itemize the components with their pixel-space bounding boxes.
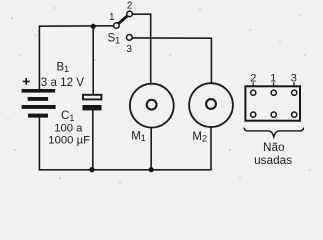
connector pin row 2 col 3 — [292, 112, 297, 117]
tick terminal 3 — [293, 82, 295, 86]
capacitor C1 top plate — [83, 95, 101, 100]
wire M1 bottom to bottom rail — [150, 127, 152, 170]
svg-text:S1: S1 — [108, 33, 121, 46]
svg-text:100 a: 100 a — [54, 122, 83, 134]
node junction dot bottom rail / M1 — [149, 167, 154, 172]
motor M2 — [189, 83, 233, 127]
switch S1 lever — [118, 15, 128, 24]
wire capacitor branch lower — [92, 110, 94, 170]
connector pin row 2 col 2 — [271, 112, 276, 117]
wire left vertical lower (battery - to bottom rail) — [38, 117, 40, 170]
svg-text:usadas: usadas — [254, 153, 292, 167]
wire top rail from left corner to switch pole — [39, 25, 113, 27]
wire switch contact 2 to M1 top — [132, 14, 151, 84]
tick terminal 1 — [273, 82, 275, 86]
svg-text:Não: Não — [263, 140, 285, 154]
switch S1 contact 2 — [127, 11, 133, 17]
svg-text:2: 2 — [127, 1, 133, 12]
connector body (unused terminal block) — [245, 86, 300, 120]
battery B1 plates — [22, 89, 56, 118]
connector pin row 1 col 1 — [251, 90, 256, 95]
wire switch contact 3 to M2 top — [132, 38, 211, 84]
wire bottom rail — [39, 169, 212, 171]
connector pin row 1 col 2 — [271, 90, 276, 95]
capacitor C1 bottom plate — [83, 105, 102, 110]
svg-text:M2: M2 — [192, 131, 207, 144]
node junction dot bottom rail / C1 — [89, 167, 94, 172]
battery + polarity mark — [23, 78, 30, 85]
connector pin row 2 col 1 — [251, 112, 256, 117]
wire left vertical upper (battery + to top rail) — [38, 25, 40, 89]
wire M2 bottom to bottom rail — [210, 127, 212, 170]
svg-text:B1: B1 — [57, 61, 70, 74]
svg-text:3 a 12 V: 3 a 12 V — [41, 76, 84, 89]
connector pin row 1 col 3 — [292, 90, 297, 95]
switch S1 contact 1 (pole) — [114, 23, 120, 29]
svg-text:1: 1 — [109, 12, 115, 23]
switch S1 contact 3 — [126, 35, 132, 41]
svg-text:3: 3 — [126, 44, 132, 55]
motor M1 — [130, 84, 174, 128]
brace under connector — [244, 128, 304, 137]
svg-text:M1: M1 — [131, 130, 146, 143]
svg-text:1000 µF: 1000 µF — [48, 135, 90, 147]
wire capacitor branch upper — [92, 26, 94, 94]
node junction dot top rail / C1 — [91, 24, 96, 29]
tick terminal 2 — [252, 82, 254, 86]
svg-text:C1: C1 — [61, 110, 74, 123]
